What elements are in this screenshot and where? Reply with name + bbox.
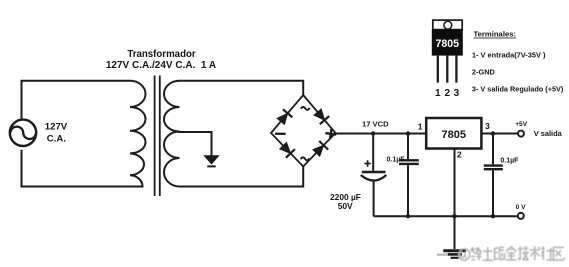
bridge rectifier BR1 diamond: [271, 95, 336, 167]
TO-220 leg 1: [437, 56, 439, 83]
TO-220 leg 2: [446, 56, 448, 83]
capacitor C1 lower wire: [373, 180, 375, 216]
terminal 0V: [518, 213, 524, 219]
capacitor C2 0.1uF: [399, 134, 419, 217]
svg-text:0.1µF: 0.1µF: [387, 157, 406, 164]
node junction rail-C3: [491, 214, 495, 218]
label 127V C.A.: [45, 121, 68, 144]
capacitor C1 top plate: [362, 171, 386, 174]
node junction at C2: [406, 131, 410, 135]
svg-text:Terminales:: Terminales:: [474, 30, 517, 39]
char jin: [506, 247, 516, 260]
svg-text:V salida: V salida: [534, 129, 563, 138]
svg-text:3- V salida Regulado (+5V): 3- V salida Regulado (+5V): [472, 85, 564, 94]
center tap ground arrow: [204, 156, 218, 167]
diode D3 (bottom-left edge): [279, 141, 295, 157]
svg-text:C.A.: C.A.: [47, 134, 66, 145]
transformer secondary winding L2 + wires to bridge: [164, 81, 303, 187]
AC mark bottom: [301, 157, 310, 160]
svg-text:50V: 50V: [338, 201, 353, 211]
label Transformador: [106, 49, 216, 71]
node junction rail-pin2: [452, 214, 456, 218]
Terminales text block: [472, 30, 564, 94]
wire ground rail: [374, 215, 518, 217]
transformer core: [155, 76, 160, 197]
char she: [541, 246, 555, 260]
node junction at C3: [491, 131, 495, 135]
label 2200uF 50V: [330, 192, 361, 211]
diode D2 (top-right edge): [313, 108, 329, 124]
svg-text:3: 3: [454, 88, 460, 99]
svg-text:+5V: +5V: [515, 121, 528, 128]
wire pin 2 to ground: [454, 149, 456, 250]
diode D4 (bottom-right edge): [312, 141, 328, 157]
node junction at C1: [371, 131, 375, 135]
svg-text:3: 3: [485, 121, 490, 131]
TO-220 leg 3: [455, 56, 457, 83]
ground symbol: [443, 251, 466, 258]
capacitor C1 curved plate: [361, 175, 387, 181]
diode D1 (top-left edge): [276, 109, 292, 125]
svg-text:0.1µF: 0.1µF: [500, 158, 519, 165]
at sign: [459, 249, 470, 260]
svg-text:2: 2: [445, 88, 451, 99]
svg-text:127V C.A./24V C.A. 1 A: 127V C.A./24V C.A. 1 A: [106, 60, 216, 71]
capacitor C3 0.1uF: [484, 134, 503, 217]
TO-220 package drawing: tab: [433, 20, 462, 30]
regulator U1 7805 box: [426, 118, 481, 149]
AC mark top: [301, 107, 310, 110]
scan artifact dash: [437, 253, 448, 255]
capacitor C1 plus sign: [364, 160, 370, 166]
char shu: [530, 246, 541, 260]
svg-text:Transformador: Transformador: [127, 49, 196, 60]
char tu: [482, 247, 493, 260]
terminal +5V output: [518, 131, 524, 137]
wire pin 3 output: [481, 133, 518, 135]
char qu: [553, 247, 565, 260]
wire DC output: [336, 133, 427, 135]
svg-text:17 VCD: 17 VCD: [362, 120, 389, 129]
center tap wire: [178, 132, 212, 156]
plus mark: [325, 128, 337, 139]
char ji: [518, 246, 529, 260]
AC source V1: [10, 120, 36, 146]
svg-text:7805: 7805: [442, 129, 466, 141]
char jue: [495, 247, 505, 259]
minus mark: [275, 133, 286, 135]
TO-220 body: [432, 30, 463, 56]
svg-text:7805: 7805: [436, 38, 460, 50]
svg-text:0 V: 0 V: [516, 204, 526, 211]
svg-text:1- V entrada(7V-35V ): 1- V entrada(7V-35V ): [472, 51, 546, 60]
svg-text:1: 1: [418, 121, 423, 131]
svg-text:127V: 127V: [45, 121, 68, 132]
capacitor C1 2200uF wire: [372, 134, 374, 171]
node junction rail-C2: [406, 214, 410, 218]
svg-text:1: 1: [435, 88, 441, 99]
watermark @xitu juejin community: [459, 246, 566, 260]
char xi: [471, 247, 482, 260]
TO-220 pin numbers 1 2 3: [435, 88, 460, 99]
svg-text:2: 2: [457, 149, 462, 159]
TO-220 mounting hole: [444, 21, 452, 29]
wire primary loop with transformer primary winding L1: [22, 81, 146, 187]
svg-text:2-GND: 2-GND: [472, 67, 496, 76]
